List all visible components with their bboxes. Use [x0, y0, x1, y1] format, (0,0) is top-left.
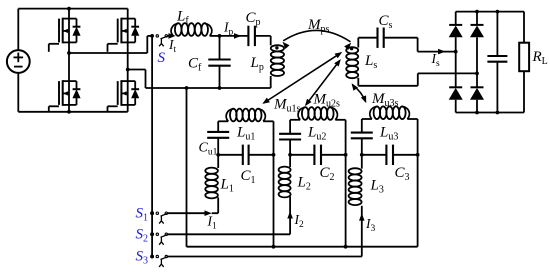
wire [407, 118, 417, 120]
wire [217, 138, 219, 155]
diode D4 [471, 86, 484, 88]
capacitor Cp [247, 26, 249, 46]
wire [358, 37, 377, 39]
capacitor Co [487, 55, 507, 57]
wire [68, 42, 70, 53]
wire [417, 119, 419, 247]
node [475, 72, 479, 76]
wire [168, 212, 205, 214]
node [218, 86, 222, 90]
node [416, 153, 420, 157]
switch S1 [150, 211, 167, 223]
wire [127, 42, 129, 69]
wire [523, 71, 525, 112]
node [67, 110, 71, 114]
node [150, 211, 154, 215]
transistor Q2 [108, 18, 140, 52]
node [475, 111, 479, 115]
capacitor C2 [313, 145, 315, 165]
capacitor Cu1 [207, 131, 229, 133]
wire [361, 206, 363, 257]
wire [68, 9, 70, 19]
wire [362, 154, 387, 156]
wire [18, 111, 127, 113]
wire [212, 212, 219, 214]
capacitor Cu3 [351, 132, 373, 134]
switch S [150, 34, 167, 46]
wire [273, 121, 275, 246]
diode D2 [471, 24, 484, 26]
svg-text:S: S [158, 50, 166, 66]
wire [357, 38, 359, 48]
mutual coupling Mu1s arrow [264, 53, 341, 103]
wire [217, 155, 219, 168]
transistor Q3 [49, 80, 81, 111]
capacitor Cu2 [279, 133, 301, 135]
capacitor C1 [242, 145, 244, 165]
wire [335, 119, 345, 121]
wire [456, 112, 524, 114]
wire [361, 138, 363, 155]
mutual coupling Mu3s arrow [352, 85, 365, 102]
wire [523, 12, 525, 43]
wire [127, 70, 129, 82]
node [216, 153, 220, 157]
wire [357, 78, 359, 86]
wire [263, 120, 273, 122]
voltage source V1 [7, 50, 30, 73]
current arrow I1 [205, 210, 212, 216]
wire [476, 12, 478, 25]
node [150, 255, 154, 259]
wire [345, 120, 347, 247]
wire [455, 12, 457, 25]
switch S2 [150, 232, 167, 244]
wire [217, 197, 219, 213]
wire [217, 121, 219, 132]
wire [321, 154, 346, 156]
wire [17, 9, 19, 51]
wire [270, 76, 272, 88]
inductor L3 [349, 168, 362, 174]
node [344, 245, 348, 249]
wire [289, 140, 291, 155]
wire [151, 36, 153, 257]
wire [127, 105, 129, 112]
inductor Lu3 [370, 107, 377, 119]
node [218, 34, 222, 38]
wire [393, 154, 418, 156]
wire [255, 35, 271, 37]
node [288, 153, 292, 157]
node [344, 153, 348, 157]
inductor Ls [346, 47, 358, 53]
wire [455, 37, 457, 51]
wire [218, 154, 243, 156]
current arrow I3 [359, 213, 365, 220]
wire [186, 88, 188, 247]
wire [361, 119, 363, 133]
wire [168, 233, 290, 235]
inductor L1 [205, 168, 218, 174]
current arrow It [168, 33, 175, 39]
wire [361, 155, 363, 169]
transistor Q1 [49, 18, 81, 52]
mutual coupling Mps arrow [283, 30, 350, 41]
mutual coupling Mu2s arrow [306, 60, 340, 104]
wire [496, 62, 498, 113]
wire [290, 154, 314, 156]
node A [67, 51, 71, 55]
inductor Lp [271, 45, 284, 51]
wire [289, 196, 291, 234]
wire [220, 35, 249, 37]
wire [210, 35, 220, 37]
wire [496, 12, 498, 56]
node B [126, 68, 130, 72]
wire [218, 120, 228, 122]
wire [455, 100, 457, 113]
node [475, 10, 479, 14]
wire [68, 105, 70, 112]
resistor RL [519, 43, 529, 71]
wire [384, 37, 418, 39]
inductor Lu1 [226, 109, 233, 121]
transistor Q4 [108, 80, 140, 111]
diode D3 [449, 86, 462, 88]
wire [456, 11, 524, 13]
wire [362, 118, 372, 120]
current arrow Ip [234, 33, 241, 39]
wire [127, 9, 129, 19]
wire [146, 87, 271, 89]
capacitor C3 [385, 145, 387, 165]
node [496, 111, 500, 115]
current arrow I2 [287, 211, 293, 218]
wire [476, 73, 478, 87]
wire [249, 154, 274, 156]
wire [290, 119, 300, 121]
polarity dot Ls [350, 47, 353, 50]
inductor Lu2 [298, 108, 305, 120]
capacitor Cf [219, 36, 221, 60]
wire [289, 120, 291, 134]
polarity dot Lp [275, 46, 278, 49]
inductor Lf [171, 24, 178, 36]
wire [128, 69, 146, 71]
wire [18, 8, 127, 10]
wire [455, 52, 457, 88]
inductor L2 [279, 167, 291, 173]
node [185, 86, 189, 90]
wire [476, 37, 478, 73]
node [272, 245, 276, 249]
node [272, 153, 276, 157]
node [150, 232, 154, 236]
wire [476, 100, 478, 113]
node [496, 10, 500, 14]
capacitor Cs [376, 28, 378, 48]
wire [167, 35, 170, 37]
wire [69, 52, 147, 54]
current arrow Is [438, 49, 445, 55]
node [454, 50, 458, 54]
wire [68, 53, 70, 81]
wire [168, 256, 362, 258]
diode D1 [449, 24, 462, 26]
node [360, 153, 364, 157]
switch S3 [150, 255, 167, 267]
wire [289, 155, 291, 167]
node [67, 7, 71, 11]
